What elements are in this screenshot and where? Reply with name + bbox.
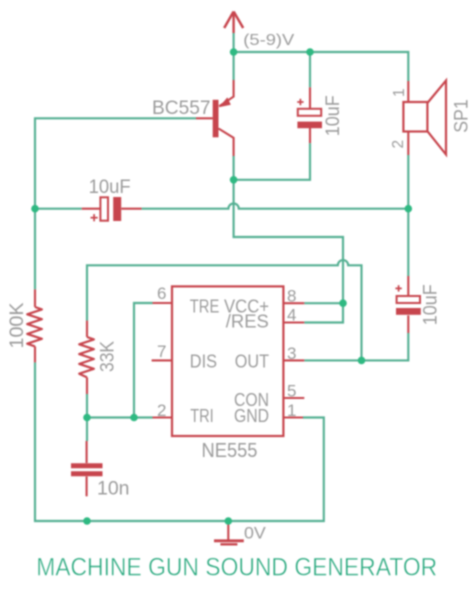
svg-text:10uF: 10uF [420, 284, 442, 325]
svg-text:5: 5 [287, 381, 296, 400]
svg-text:7: 7 [157, 342, 166, 361]
svg-text:GND: GND [234, 405, 269, 426]
svg-text:10uF: 10uF [89, 176, 131, 198]
svg-text:DIS: DIS [190, 351, 217, 372]
svg-text:10uF: 10uF [322, 95, 344, 136]
svg-text:33K: 33K [96, 341, 118, 372]
svg-text:TRI: TRI [190, 405, 214, 426]
svg-text:8: 8 [287, 287, 296, 306]
svg-text:/RES: /RES [226, 311, 269, 332]
svg-text:0V: 0V [244, 523, 266, 542]
svg-text:NE555: NE555 [202, 440, 258, 462]
svg-text:6: 6 [157, 284, 166, 303]
svg-text:(5-9)V: (5-9)V [243, 32, 295, 49]
svg-text:3: 3 [287, 344, 296, 363]
svg-text:100K: 100K [7, 302, 28, 348]
svg-text:4: 4 [287, 305, 296, 324]
svg-text:2: 2 [390, 140, 407, 149]
svg-text:1: 1 [391, 88, 408, 97]
svg-text:OUT: OUT [235, 351, 269, 372]
svg-text:MACHINE GUN SOUND GENERATOR: MACHINE GUN SOUND GENERATOR [36, 554, 437, 582]
svg-text:SP1: SP1 [450, 99, 472, 133]
svg-text:10n: 10n [97, 478, 130, 500]
svg-text:1: 1 [287, 401, 296, 420]
svg-text:BC557: BC557 [152, 97, 211, 119]
svg-text:2: 2 [157, 401, 166, 420]
svg-text:TRE: TRE [190, 295, 220, 316]
